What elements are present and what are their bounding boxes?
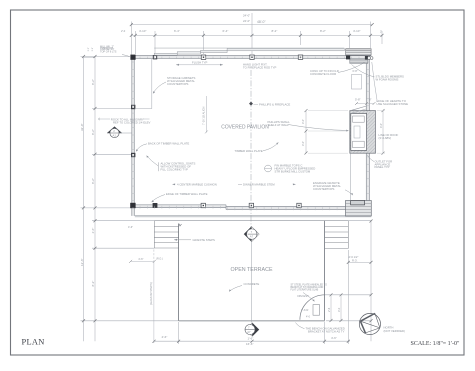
- svg-text:DIM EST: DIM EST: [298, 294, 310, 298]
- grill counter hatched: [346, 49, 371, 56]
- bench dim lines: [330, 295, 332, 321]
- svg-text:24′-0": 24′-0": [243, 14, 250, 18]
- svg-text:1′-2": 1′-2": [88, 47, 90, 52]
- svg-text:48′-0": 48′-0": [257, 20, 266, 24]
- column bottom wall x155: [153, 203, 158, 208]
- svg-text:(NOT VERIFIED): (NOT VERIFIED): [384, 329, 405, 333]
- svg-text:2′-6: 2′-6: [327, 307, 331, 312]
- wall joint ticks: [132, 57, 370, 211]
- svg-text:SCALE: 1/8"= 1′-0": SCALE: 1/8"= 1′-0": [411, 341, 460, 347]
- open terrace outline: [154, 221, 348, 322]
- svg-text:USE SALVAGED STONE: USE SALVAGED STONE: [377, 102, 409, 106]
- timber columns: [130, 55, 373, 209]
- svg-text:(R.O.): (R.O.): [156, 257, 163, 260]
- section marker top: [244, 227, 259, 242]
- svg-text:COVERED PAVILION: COVERED PAVILION: [221, 125, 269, 131]
- svg-text:DINNER MARBLE STEM: DINNER MARBLE STEM: [243, 182, 275, 186]
- svg-text:4′-6": 4′-6": [138, 257, 143, 261]
- north arrow: [359, 313, 380, 334]
- svg-text:3′-0": 3′-0": [301, 141, 305, 146]
- section marker left wall: [107, 127, 132, 138]
- svg-text:8′-2": 8′-2": [91, 178, 95, 184]
- svg-text:W FOAM ROOMS: W FOAM ROOMS: [376, 78, 399, 82]
- column top wall x347: [346, 55, 350, 59]
- firebox lining bottom: [353, 141, 365, 147]
- dimension lines: [81, 13, 383, 344]
- svg-text:2′-0: 2′-0: [121, 29, 126, 33]
- top overall dimension line: [131, 24, 372, 26]
- svg-text:(ALIGN W/ STEPS): (ALIGN W/ STEPS): [149, 282, 153, 305]
- svg-text:GRANITE STEPS: GRANITE STEPS: [193, 238, 216, 242]
- terrace bottom edge: [179, 320, 325, 322]
- terrace right edge: [324, 221, 326, 321]
- svg-text:PHILLIPS & FIREPLACE: PHILLIPS & FIREPLACE: [259, 103, 290, 107]
- svg-text:8′-2": 8′-2": [91, 79, 95, 85]
- svg-text:4 CENTER MARBLE CUSHION: 4 CENTER MARBLE CUSHION: [177, 182, 217, 186]
- svg-text:4′-6": 4′-6": [331, 336, 337, 340]
- svg-text:SHELF AT WALL: SHELF AT WALL: [268, 123, 290, 127]
- column top wall x155: [153, 55, 157, 59]
- centerline x=251 dash-dot: [250, 70, 252, 228]
- finish circle symbol: [265, 165, 272, 172]
- north counter stepped profile above top wall: [154, 48, 344, 55]
- svg-text:4′-0": 4′-0": [379, 123, 383, 128]
- svg-text:4′-10": 4′-10": [139, 29, 146, 33]
- svg-text:FLAT LITERATURE SLAB: FLAT LITERATURE SLAB: [291, 289, 319, 292]
- terrace top edge: [154, 220, 348, 222]
- left wall lines: [131, 56, 133, 216]
- svg-text:32′-0": 32′-0": [80, 123, 84, 131]
- left wall fill: [132, 56, 135, 216]
- svg-text:BRACKET AT NOTCH AS TY: BRACKET AT NOTCH AS TY: [308, 329, 345, 333]
- svg-text:FILL COLORING TYP: FILL COLORING TYP: [161, 168, 188, 172]
- column bottom-left corner: [130, 203, 135, 208]
- svg-text:4′-6": 4′-6": [162, 335, 168, 339]
- note flush typ: [176, 64, 223, 66]
- extension lines top: [130, 22, 132, 56]
- corner pier hatched: [346, 201, 372, 216]
- counter edge below fireplace: [349, 153, 351, 200]
- dimension labels: [80, 14, 383, 346]
- svg-text:3′-0: 3′-0: [337, 307, 341, 312]
- firebox: [351, 113, 367, 150]
- svg-text:BACK OF TIMBER WALL PLATE: BACK OF TIMBER WALL PLATE: [148, 142, 189, 146]
- svg-text:8′-2": 8′-2": [320, 29, 326, 33]
- svg-text:1′-0": 1′-0": [92, 47, 94, 52]
- svg-text:CONCRETE: CONCRETE: [244, 282, 260, 286]
- annotation notes: [98, 45, 408, 343]
- east counter hatched: [350, 60, 368, 64]
- bottom dimension line: [154, 340, 350, 342]
- firebox inner shelf: [354, 126, 360, 138]
- dimension ticks top: [130, 23, 133, 26]
- svg-text:(3′-6 ABV): (3′-6 ABV): [379, 136, 392, 140]
- centerline x=205: [205, 96, 207, 133]
- right granite steps: [325, 221, 349, 249]
- fireplace right dim: [382, 111, 384, 154]
- step arrow tick: [179, 224, 181, 226]
- bottom wall fill: [132, 205, 226, 208]
- column top-right corner + round posts: [365, 56, 368, 59]
- bench arc corner: [300, 295, 325, 320]
- svg-text:PANEL TYP: PANEL TYP: [375, 165, 390, 169]
- svg-text:REF TO COLORED 1/4 ELEV: REF TO COLORED 1/4 ELEV: [113, 120, 150, 124]
- right wall fill: [366, 56, 369, 203]
- svg-text:CONCRETE FLOOR: CONCRETE FLOOR: [310, 72, 336, 76]
- column left wall y155: [131, 153, 135, 157]
- hearth diagonal: [352, 106, 367, 110]
- svg-text:A1: A1: [113, 133, 117, 137]
- svg-text:2′-6 R: 2′-6 R: [301, 308, 308, 312]
- svg-text:TIMBER WALL PLATE: TIMBER WALL PLATE: [235, 149, 263, 153]
- svg-text:16′-6": 16′-6": [246, 342, 253, 346]
- column bottom wall x299: [297, 203, 301, 207]
- svg-text:8′-2": 8′-2": [91, 281, 95, 287]
- column top wall x300: [298, 55, 302, 59]
- svg-text:A7: A7: [247, 330, 251, 334]
- column top wall x203: [201, 55, 205, 59]
- cabinet outline below counter: [352, 75, 362, 90]
- terrace left edge: [178, 224, 180, 321]
- svg-text:1′-6": 1′-6": [248, 336, 254, 340]
- dimension ticks left: [82, 55, 85, 58]
- fireplace hatched masonry: [350, 111, 376, 154]
- svg-text:5′-8": 5′-8": [355, 98, 361, 102]
- svg-text:R.O.: R.O.: [352, 259, 358, 263]
- diamond tick on centerline: [249, 102, 253, 106]
- column left wall y107: [131, 105, 135, 109]
- svg-text:7′-10 1/2 ALIGN: 7′-10 1/2 ALIGN: [201, 107, 205, 125]
- fireplace masonry: [350, 106, 376, 153]
- svg-text:4′-0: 4′-0: [306, 316, 311, 319]
- floor slab edge double line: [135, 214, 371, 216]
- dimension ticks bottom: [153, 340, 156, 343]
- svg-text:6′-4": 6′-4": [174, 29, 180, 33]
- svg-text:PLAN: PLAN: [22, 337, 45, 346]
- note phillips and fireplace: [254, 103, 259, 105]
- svg-text:OPEN TERRACE: OPEN TERRACE: [231, 267, 273, 273]
- column bottom wall x203: [201, 203, 205, 207]
- top wall fill: [132, 56, 371, 59]
- svg-text:4′-10": 4′-10": [353, 29, 360, 33]
- storage cabinet footprint: [135, 59, 152, 109]
- column bottom wall x252: [249, 203, 253, 207]
- leader hearth note: [372, 62, 377, 100]
- left extension lines: [81, 56, 131, 58]
- svg-text:TO FIREPLACE ROD TYP: TO FIREPLACE ROD TYP: [243, 66, 276, 70]
- left dimension lines: [83, 57, 85, 342]
- svg-text:4′-6 1/2": 4′-6 1/2": [349, 255, 359, 259]
- note rock to all masonry: [99, 118, 110, 120]
- svg-text:3′-0": 3′-0": [301, 119, 305, 124]
- svg-text:8": 8": [369, 98, 372, 102]
- right side dimension line: [370, 221, 372, 341]
- svg-text:4′-6": 4′-6": [91, 228, 95, 234]
- svg-text:12′-6": 12′-6": [80, 258, 84, 266]
- svg-text:EDGE OF TIMBER WALL PLATE: EDGE OF TIMBER WALL PLATE: [166, 192, 208, 196]
- fireplace inner dim line: [305, 111, 307, 153]
- centerline terrace: [251, 242, 253, 323]
- pier column cap: [351, 201, 365, 205]
- svg-text:4′-6": 4′-6": [128, 226, 133, 229]
- svg-text:6′-8": 6′-8": [353, 70, 358, 73]
- left granite steps: [154, 221, 178, 248]
- svg-text:24′-0": 24′-0": [243, 19, 250, 23]
- bench notch rect: [313, 305, 320, 316]
- column top wall x252: [250, 55, 254, 59]
- svg-text:8′-2": 8′-2": [272, 29, 278, 33]
- svg-text:FLUSH TYP: FLUSH TYP: [192, 61, 207, 65]
- section marker bottom: [245, 323, 259, 337]
- svg-text:STR BURKE MILL CUSTOM: STR BURKE MILL CUSTOM: [275, 170, 311, 174]
- bottom wall lines: [132, 204, 226, 206]
- svg-text:COUNTERTOPS: COUNTERTOPS: [167, 82, 188, 86]
- column top-left corner: [130, 55, 135, 60]
- svg-text:A7: A7: [250, 234, 254, 238]
- top wall lines: [132, 55, 371, 57]
- dimension ticks right: [347, 261, 350, 264]
- dimension tick marks: [82, 23, 384, 343]
- svg-text:COUNTERTOPS: COUNTERTOPS: [313, 187, 334, 191]
- firebox lining top: [353, 116, 365, 122]
- svg-text:8′-2": 8′-2": [91, 129, 95, 135]
- top segment dimension line: [131, 34, 382, 36]
- right wall lines: [365, 56, 367, 203]
- svg-text:6′-4": 6′-4": [223, 29, 229, 33]
- svg-text:TOP OF 6 LTS: TOP OF 6 LTS: [100, 51, 117, 54]
